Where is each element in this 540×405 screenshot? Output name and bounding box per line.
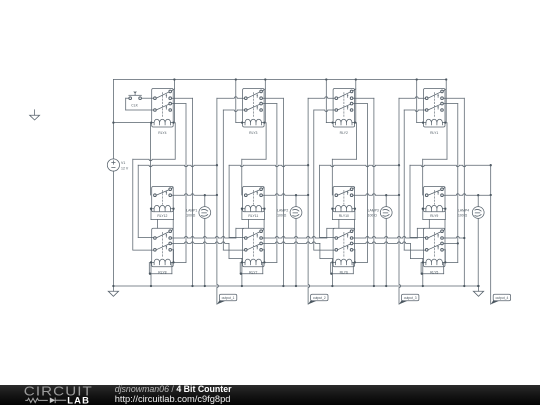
wire RLY1 NC2 down to RLY5 coil-right — [443, 104, 457, 263]
wire RLY7 coil-left to ground rail — [241, 261, 243, 287]
wire RLY3 coil-right to RLY11 common — [242, 123, 266, 195]
wire RLY6 U-route below — [330, 262, 353, 274]
wire rail to RLY3 coil-left — [235, 78, 244, 123]
wire RLY8 coil-left to ground rail — [150, 261, 152, 287]
wire output node 2 vertical — [307, 98, 310, 304]
svg-text:RLY9: RLY9 — [430, 214, 438, 218]
wire rail to RLY2 coil-left — [325, 78, 334, 123]
wire RLY3 NC1/coil-right to rail — [262, 78, 266, 123]
wire RLY9 NC to box corner — [443, 187, 445, 189]
svg-text:RLY11: RLY11 — [248, 214, 258, 218]
svg-text:RLY10: RLY10 — [339, 214, 349, 218]
wire RLY4 NC1/coil-right to rail — [171, 78, 175, 123]
svg-text:100 Ω: 100 Ω — [458, 214, 468, 218]
wire output node 1 vertical — [216, 98, 219, 304]
wire RLY3 NC2 down to RLY7 coil-right — [263, 104, 277, 263]
wire RLY10 coil U-route — [331, 208, 356, 229]
svg-text:12 V: 12 V — [121, 167, 129, 171]
wire RLY3 common2 to RLY7 common2 — [223, 110, 244, 250]
svg-text:LAMP4: LAMP4 — [458, 209, 469, 213]
relay RLY5 (DPDT) — [424, 228, 446, 274]
wire RLY7 U-route below — [240, 262, 263, 274]
wire ground bottom rail — [113, 285, 478, 287]
footer credit text — [115, 385, 232, 404]
wire RLY4 NO1 down to rail — [172, 98, 194, 287]
svg-text:output_4: output_4 — [495, 296, 508, 300]
wire RLY8 NC2 to next stage coil — [172, 242, 242, 263]
wire RLY6 NC1 to box corner — [353, 229, 355, 231]
relay RLY1 (DPDT) — [424, 89, 446, 135]
wire RLY12 coil U-route — [150, 208, 175, 229]
wire RLY6 NO1 to next stage — [353, 228, 425, 238]
wire left rail upper — [112, 80, 114, 159]
wire RLY9 coil U-route — [422, 208, 447, 229]
wire RLY3 NO1 down to rail — [263, 98, 285, 287]
svg-text:LAB: LAB — [67, 394, 90, 405]
flag output_1 — [217, 294, 237, 304]
voltage source V1 12 V — [107, 159, 129, 171]
wire CLK to RLY4 common 1 — [141, 97, 153, 99]
flag output_2 — [308, 294, 328, 304]
wire RLY7 NC2 to next stage coil — [263, 242, 333, 263]
svg-text:output_3: output_3 — [404, 296, 417, 300]
flag output_4 — [491, 294, 511, 304]
pushbutton switch CLK — [129, 92, 142, 108]
wire output node to RLY7 common1 — [229, 165, 308, 237]
svg-text:RLY1: RLY1 — [430, 131, 438, 135]
wire RLY1 NC1/coil-right to rail — [443, 78, 447, 123]
wire left rail lower — [112, 171, 114, 286]
wire RLY2 NC2 down to RLY6 coil-right — [353, 104, 367, 263]
ground symbol right — [473, 285, 483, 296]
lamp LAMP1 100 Ohm — [186, 195, 211, 287]
wire RLY7 NO1 to next stage — [263, 228, 335, 238]
wire RLY10 NC to box corner — [353, 187, 355, 189]
relay RLY3 (DPDT) — [243, 89, 265, 135]
wire RLY12 NC to box corner — [172, 187, 174, 189]
svg-text:output_2: output_2 — [313, 296, 326, 300]
wire output node to RLY8 common1 — [138, 165, 217, 237]
svg-text:100 Ω: 100 Ω — [277, 214, 287, 218]
wire RLY11 NC to box corner — [263, 187, 265, 189]
wire RLY4 coil-left down to RLY12 common — [150, 123, 152, 195]
wire RLY4 NC2 down to RLY8 coil-right — [172, 104, 186, 263]
wire RLY8 NO2 to coil-right — [172, 250, 175, 264]
relay RLY7 (DPDT) — [243, 228, 265, 274]
wire RLY8 U-route below — [149, 262, 172, 274]
wire RLY11 coil U-route — [241, 208, 266, 229]
ground symbol (floating) — [30, 110, 40, 120]
relay RLY8 (DPDT) — [152, 228, 174, 274]
wire RLY11 NO to lamp and output node — [263, 194, 309, 197]
wire RLY5 NC1 to box corner — [443, 229, 445, 231]
wire output node to RLY5 common1 — [410, 165, 491, 237]
flag output_3 — [399, 294, 419, 304]
relay RLY11 (SPDT) — [243, 187, 265, 219]
wire RLY4 coil-right to RLY8 common2 — [133, 123, 175, 251]
svg-text:RLY12: RLY12 — [157, 214, 167, 218]
wire RLY5 U-route below — [421, 262, 444, 274]
CircuitLab logo — [0, 385, 100, 405]
wire V1 rail to RLY4 coil-left — [112, 121, 152, 123]
wire RLY5 coil-left to ground rail — [422, 261, 424, 287]
svg-text:LAMP3: LAMP3 — [368, 209, 379, 213]
wire RLY5 NC2 link — [443, 242, 459, 244]
lamp LAMP3 100 Ohm — [368, 195, 393, 287]
relay RLY10 (SPDT) — [333, 187, 355, 219]
wire output node to RLY2 common1 — [308, 97, 335, 99]
wire RLY9 NO to lamp and output node — [443, 194, 490, 197]
wire output node 3 vertical — [398, 98, 401, 304]
wire RLY6 NO2 to coil-right — [353, 250, 356, 264]
wire RLY8 NC1 to box corner — [172, 229, 174, 231]
svg-text:output_1: output_1 — [222, 296, 235, 300]
wire RLY6 coil-left to ground rail — [331, 261, 333, 287]
wire output node to RLY1 common1 — [399, 97, 425, 99]
wire RLY10 NO to lamp and output node — [353, 194, 399, 197]
wire RLY12 NO to lamp and output node — [172, 194, 217, 197]
svg-text:100 Ω: 100 Ω — [368, 214, 378, 218]
relay RLY4 (DPDT) — [152, 89, 174, 135]
lamp LAMP2 100 Ohm — [277, 195, 302, 287]
wire output node to RLY6 common1 — [320, 165, 399, 237]
svg-text:V1: V1 — [121, 161, 125, 165]
svg-text:LAMP1: LAMP1 — [186, 209, 197, 213]
relay RLY2 (DPDT) — [333, 89, 355, 135]
wire +12V top rail — [113, 79, 446, 81]
wire RLY2 coil-right to RLY10 common — [332, 123, 356, 195]
ground symbol left — [108, 285, 118, 296]
relay RLY6 (DPDT) — [333, 228, 355, 274]
relay RLY12 (SPDT) — [152, 187, 174, 219]
wire RLY5 NO1 to rail vertical — [443, 237, 465, 240]
svg-text:RLY4: RLY4 — [158, 131, 166, 135]
wire RLY5 NO2 to coil-right — [443, 250, 446, 264]
wire RLY1 coil-right to RLY9 common — [423, 123, 447, 195]
wire RLY1 NO1 down to rail — [443, 98, 465, 287]
wire RLY6 NC2 to next stage coil — [353, 242, 423, 263]
svg-text:CLK: CLK — [131, 104, 138, 108]
lamp LAMP4 100 Ohm — [458, 195, 484, 287]
wire RLY1 common2 to RLY5 common2 — [404, 110, 425, 250]
wire output node 4 vertical — [490, 164, 492, 304]
footer bar — [0, 385, 540, 405]
wire rail to RLY1 coil-left — [416, 78, 425, 123]
wire RLY2 common2 to RLY6 common2 — [314, 110, 335, 250]
svg-text:100 Ω: 100 Ω — [186, 214, 196, 218]
wire output node to RLY3 common1 — [217, 97, 245, 99]
wire RLY8 NO1 to next stage — [172, 228, 244, 238]
wire RLY7 NC1 to box corner — [263, 229, 265, 231]
wire CLK to RLY4 common 2 — [126, 98, 154, 110]
svg-text:RLY2: RLY2 — [340, 131, 348, 135]
svg-text:RLY3: RLY3 — [249, 131, 257, 135]
wire RLY2 NC1/coil-right to rail — [353, 78, 357, 123]
wire RLY7 NO2 to coil-right — [263, 250, 266, 264]
svg-text:LAMP2: LAMP2 — [277, 209, 288, 213]
relay RLY9 (SPDT) — [424, 187, 446, 219]
wire RLY2 NO1 down to rail — [353, 98, 375, 287]
